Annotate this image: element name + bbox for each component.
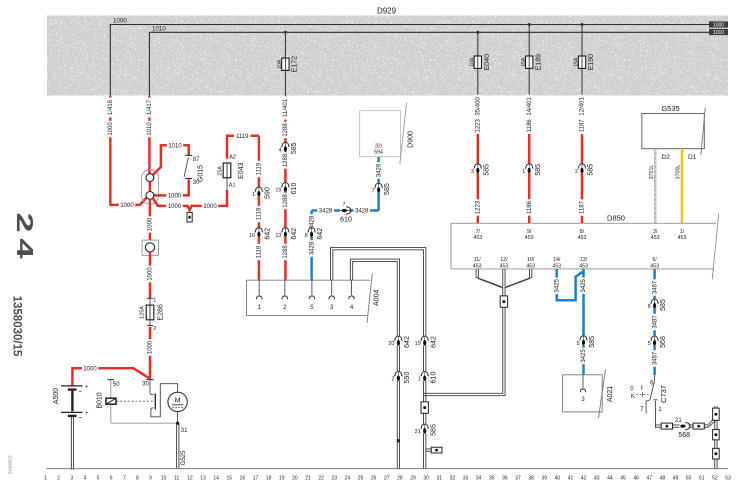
svg-text:E040: E040	[484, 54, 491, 70]
svg-text:453: 453	[473, 263, 482, 269]
fuse E189 15A	[528, 23, 531, 26]
svg-text:453: 453	[578, 235, 587, 241]
pin 4 A004	[351, 280, 353, 295]
svg-text:B010: B010	[97, 392, 104, 408]
wire 3487 from D850 pin 6	[653, 269, 656, 375]
svg-text:3487: 3487	[652, 280, 658, 294]
svg-text:15A: 15A	[574, 57, 580, 67]
connector 21/585	[421, 424, 428, 433]
svg-text:3487: 3487	[652, 351, 658, 365]
svg-text:23: 23	[331, 476, 337, 482]
svg-text:25: 25	[358, 476, 364, 482]
solenoid coil	[106, 398, 116, 404]
svg-text:22: 22	[318, 476, 324, 482]
pin 3 A004	[331, 280, 333, 295]
svg-text:585: 585	[535, 164, 542, 176]
battery A500	[61, 385, 82, 387]
svg-text:52: 52	[712, 476, 718, 482]
solenoid contact	[149, 380, 151, 393]
connector 5/568	[651, 336, 658, 345]
svg-text:7/: 7/	[476, 229, 481, 235]
svg-text:28: 28	[397, 476, 403, 482]
svg-text:7: 7	[123, 476, 126, 482]
svg-text:3700L: 3700L	[675, 165, 681, 180]
svg-text:G015: G015	[198, 165, 205, 182]
svg-text:20: 20	[388, 341, 394, 347]
wire 1000 switch to post	[154, 179, 189, 195]
svg-text:41: 41	[568, 476, 574, 482]
pin 3 A021	[582, 375, 584, 388]
svg-text:1119: 1119	[257, 162, 263, 175]
svg-text:1000: 1000	[148, 217, 154, 231]
svg-text:40: 40	[555, 476, 561, 482]
svg-text:125A: 125A	[140, 306, 146, 319]
svg-text:610: 610	[430, 372, 437, 384]
pin 1 C737	[654, 399, 658, 401]
svg-text:D929: D929	[377, 7, 397, 16]
svg-text:642: 642	[404, 336, 411, 348]
splice block 610 pair	[421, 402, 428, 413]
wire 1187 column	[581, 96, 584, 223]
svg-text:A021: A021	[607, 386, 614, 402]
svg-text:31: 31	[181, 428, 188, 434]
svg-text:585: 585	[483, 164, 490, 176]
ground block 2	[693, 423, 704, 429]
svg-text:1119: 1119	[257, 207, 263, 220]
connector 3/585	[474, 164, 481, 173]
svg-text:87: 87	[193, 157, 200, 163]
bus wire 1000	[110, 25, 709, 97]
svg-text:1000: 1000	[108, 122, 114, 136]
svg-text:3425: 3425	[581, 278, 587, 292]
svg-text:10/: 10/	[527, 257, 535, 263]
svg-text:43: 43	[594, 476, 600, 482]
svg-text:1000: 1000	[148, 340, 154, 354]
svg-text:A004: A004	[374, 290, 381, 306]
svg-text:8/: 8/	[580, 229, 585, 235]
svg-text:D850: D850	[607, 214, 625, 223]
svg-text:14/: 14/	[553, 257, 561, 263]
wire 1010 to switch G015	[153, 145, 189, 175]
bus wire 1010	[149, 32, 709, 96]
wire 1119	[227, 136, 259, 159]
svg-text:1000: 1000	[168, 194, 182, 200]
ground pair from D850 pins 11 12 10	[476, 269, 502, 287]
svg-text:1358030/15: 1358030/15	[10, 296, 22, 357]
connector 4/585	[282, 142, 289, 151]
svg-text:33: 33	[463, 476, 469, 482]
svg-text:2: 2	[57, 476, 60, 482]
wire 1010 feed	[148, 96, 151, 174]
svg-text:453: 453	[579, 263, 588, 269]
svg-text:642: 642	[291, 228, 298, 240]
wire pair from A004 pin 3	[331, 248, 426, 469]
svg-text:585: 585	[660, 299, 667, 311]
svg-text:4: 4	[278, 147, 281, 153]
svg-text:2: 2	[153, 326, 156, 332]
svg-text:1000: 1000	[148, 267, 154, 281]
svg-text:3425: 3425	[554, 278, 560, 292]
svg-text:1000: 1000	[83, 366, 97, 372]
svg-text:12/401: 12/401	[580, 97, 586, 116]
motor M	[168, 392, 187, 411]
splice block	[187, 212, 192, 222]
pin 1 A004	[258, 280, 260, 295]
svg-text:3487: 3487	[652, 315, 658, 329]
svg-text:594: 594	[374, 150, 383, 156]
svg-text:37: 37	[515, 476, 521, 482]
svg-text:1000: 1000	[713, 22, 724, 28]
svg-text:EL000021: EL000021	[8, 454, 13, 474]
wire 3425 from D850 pin 13	[582, 269, 585, 375]
wire 3428 horizontal	[312, 209, 379, 212]
svg-text:610: 610	[291, 183, 298, 195]
svg-text:1119: 1119	[236, 134, 249, 140]
starter B010	[147, 379, 154, 381]
svg-text:4: 4	[83, 476, 86, 482]
svg-text:39: 39	[541, 476, 547, 482]
svg-text:1/417: 1/417	[147, 99, 153, 115]
svg-text:585: 585	[430, 424, 437, 436]
svg-text:3: 3	[471, 169, 474, 175]
svg-text:1000: 1000	[120, 203, 134, 209]
svg-text:26: 26	[371, 476, 377, 482]
svg-text:1010: 1010	[147, 122, 153, 136]
svg-text:C737: C737	[659, 385, 668, 403]
svg-text:15A: 15A	[521, 57, 527, 67]
splice block on pair	[500, 296, 507, 307]
svg-text:45: 45	[620, 476, 626, 482]
svg-text:5: 5	[648, 341, 651, 347]
wire pair from A004 pin 4	[350, 259, 399, 469]
svg-text:18: 18	[266, 476, 272, 482]
svg-text:590: 590	[265, 187, 272, 199]
svg-text:3425: 3425	[581, 349, 587, 363]
svg-text:3428: 3428	[319, 209, 333, 215]
svg-text:453: 453	[499, 263, 508, 269]
ground block	[661, 423, 672, 429]
svg-text:1010: 1010	[713, 30, 724, 36]
svg-text:34: 34	[476, 476, 482, 482]
svg-text:38: 38	[528, 476, 534, 482]
svg-text:1: 1	[522, 169, 525, 175]
svg-text:1288: 1288	[283, 123, 289, 137]
svg-text:25A: 25A	[218, 166, 224, 176]
svg-text:1223: 1223	[475, 200, 481, 214]
node circle2	[149, 182, 152, 192]
svg-text:1: 1	[153, 297, 156, 303]
svg-text:42: 42	[581, 476, 587, 482]
svg-text:11/: 11/	[474, 257, 481, 263]
wire 1000 battery to starter	[72, 368, 149, 386]
svg-text:30: 30	[142, 382, 149, 388]
svg-text:14: 14	[213, 476, 219, 482]
svg-text:16: 16	[240, 476, 246, 482]
svg-text:15: 15	[226, 476, 232, 482]
svg-text:13: 13	[200, 476, 206, 482]
svg-text:10A: 10A	[469, 57, 475, 67]
svg-text:46: 46	[633, 476, 639, 482]
svg-text:585: 585	[589, 336, 596, 348]
svg-text:21: 21	[675, 418, 682, 424]
wire 1000 feed	[110, 96, 146, 205]
svg-text:D900: D900	[408, 131, 415, 148]
svg-text:8: 8	[136, 476, 139, 482]
svg-text:1288: 1288	[283, 194, 289, 208]
svg-text:1288: 1288	[283, 245, 289, 259]
svg-text:585: 585	[384, 183, 391, 195]
svg-text:47: 47	[646, 476, 652, 482]
svg-text:453: 453	[651, 235, 660, 241]
svg-text:1/416: 1/416	[108, 99, 114, 115]
ground chain from C737 pin 1	[656, 424, 662, 426]
connector 21/568	[680, 425, 685, 428]
svg-text:D2: D2	[662, 154, 671, 161]
ground stub block	[426, 448, 431, 450]
switch G015	[185, 154, 192, 156]
node circle1	[146, 174, 154, 182]
svg-text:19: 19	[275, 188, 281, 194]
svg-text:A2: A2	[229, 155, 236, 161]
svg-text:1186: 1186	[527, 200, 533, 214]
svg-text:19: 19	[279, 476, 285, 482]
svg-text:1119: 1119	[257, 245, 263, 258]
svg-text:568: 568	[678, 432, 690, 439]
svg-text:E190: E190	[588, 54, 595, 70]
svg-text:585: 585	[291, 142, 298, 154]
net tag 1000	[709, 21, 728, 27]
svg-text:1186: 1186	[527, 119, 533, 133]
svg-text:6: 6	[110, 476, 113, 482]
junction post terminal block	[142, 170, 159, 205]
connector 7/585	[375, 183, 382, 192]
svg-text:585: 585	[588, 164, 595, 176]
svg-text:1187: 1187	[580, 119, 586, 133]
fuse E172 10A	[284, 31, 287, 34]
connector 8/642	[308, 228, 315, 237]
svg-text:17: 17	[253, 476, 259, 482]
svg-text:1: 1	[418, 377, 421, 383]
connector 2/590	[395, 371, 402, 380]
svg-text:K: K	[631, 394, 635, 400]
svg-text:610: 610	[340, 217, 352, 224]
connector 16/642	[255, 228, 262, 237]
module A004	[247, 280, 371, 315]
wire 1288 column	[284, 96, 287, 280]
svg-text:6/: 6/	[652, 257, 657, 263]
svg-text:29: 29	[410, 476, 416, 482]
svg-text:2: 2	[391, 377, 394, 383]
module A021	[563, 375, 603, 412]
connector 19/610	[282, 182, 289, 191]
svg-text:1000: 1000	[203, 204, 217, 210]
svg-text:A1: A1	[229, 182, 236, 188]
fuse E190 15A	[581, 23, 584, 26]
svg-text:9/: 9/	[527, 229, 532, 235]
connector 8/585	[651, 299, 658, 308]
svg-text:35/400: 35/400	[475, 97, 481, 116]
svg-text:1010: 1010	[168, 143, 182, 149]
svg-text:7: 7	[372, 188, 375, 194]
svg-text:+: +	[85, 384, 89, 390]
svg-text:E172: E172	[292, 56, 299, 72]
svg-text:51: 51	[699, 476, 705, 482]
junction square post	[142, 240, 158, 255]
svg-text:27: 27	[384, 476, 390, 482]
svg-text:16: 16	[249, 233, 255, 239]
fuse E286 125A	[147, 297, 153, 299]
svg-text:14/401: 14/401	[527, 97, 533, 116]
harness band D929	[47, 16, 728, 96]
connector 20/642	[395, 336, 402, 345]
ground G525 pair	[176, 423, 178, 469]
svg-text:568: 568	[660, 336, 667, 348]
svg-text:453: 453	[526, 263, 535, 269]
connector 13/642	[282, 228, 289, 237]
battery ground pair	[70, 417, 72, 470]
svg-text:21: 21	[415, 429, 421, 435]
wire 3701L	[654, 149, 657, 224]
svg-text:642: 642	[317, 228, 324, 240]
svg-text:642: 642	[430, 336, 437, 348]
svg-text:642: 642	[265, 228, 272, 240]
svg-text:1010: 1010	[152, 25, 166, 32]
connector 7/610	[340, 207, 349, 214]
svg-text:30: 30	[423, 476, 429, 482]
svg-text:3428: 3428	[355, 209, 369, 215]
ground post column	[714, 406, 716, 469]
svg-text:3428: 3428	[309, 215, 315, 229]
svg-text:10A: 10A	[277, 59, 283, 69]
svg-text:24: 24	[11, 212, 36, 264]
svg-text:3: 3	[70, 476, 73, 482]
svg-text:E189: E189	[535, 54, 542, 70]
svg-text:8: 8	[305, 233, 308, 239]
connector 19/642	[421, 336, 428, 345]
pin 2 A004	[284, 280, 286, 295]
connector 5/585	[580, 336, 587, 345]
svg-text:M: M	[175, 397, 181, 404]
svg-text:5: 5	[97, 476, 100, 482]
svg-text:453: 453	[678, 235, 687, 241]
svg-text:20: 20	[292, 476, 298, 482]
svg-text:G525: G525	[181, 450, 187, 465]
svg-text:590: 590	[404, 372, 411, 384]
ruler line	[47, 468, 729, 470]
wire 1000 to E286	[149, 252, 152, 298]
pin 7 C737	[646, 400, 650, 413]
svg-text:453: 453	[552, 263, 561, 269]
svg-text:3428: 3428	[309, 241, 315, 255]
svg-text:53: 53	[725, 476, 731, 482]
svg-text:36: 36	[502, 476, 508, 482]
svg-text:3428: 3428	[376, 163, 382, 177]
fuse E043 25A	[226, 178, 228, 191]
svg-text:5: 5	[577, 341, 580, 347]
connector 1/585	[526, 164, 533, 173]
svg-text:31: 31	[436, 476, 442, 482]
svg-text:1288: 1288	[283, 153, 289, 167]
svg-text:19: 19	[415, 341, 421, 347]
svg-text:453: 453	[650, 263, 659, 269]
pin 5 A004	[311, 280, 313, 295]
svg-text:50: 50	[686, 476, 692, 482]
svg-text:44: 44	[607, 476, 613, 482]
svg-text:7: 7	[342, 202, 345, 208]
svg-text:A500: A500	[53, 388, 60, 404]
svg-text:E043: E043	[238, 163, 245, 179]
connector 2/585	[578, 164, 585, 173]
svg-text:3701L: 3701L	[649, 165, 655, 180]
svg-text:1187: 1187	[580, 200, 586, 214]
svg-text:1000: 1000	[168, 204, 182, 210]
svg-text:8: 8	[648, 304, 651, 310]
wire 1000 to fuse E043	[153, 190, 227, 210]
svg-text:453: 453	[525, 235, 534, 241]
module G535	[642, 114, 705, 149]
splice dot	[397, 439, 399, 443]
svg-text:48: 48	[660, 476, 666, 482]
svg-text:1: 1	[252, 192, 255, 198]
svg-text:10: 10	[161, 476, 167, 482]
svg-text:+: +	[85, 411, 89, 417]
svg-text:12/: 12/	[500, 257, 508, 263]
wire 1186 column	[528, 96, 531, 223]
fuse E040 10A	[476, 31, 479, 34]
svg-text:50: 50	[113, 382, 120, 388]
node 31	[176, 422, 179, 425]
module D850	[451, 223, 716, 269]
wire 3700L	[681, 149, 684, 224]
svg-text:13: 13	[275, 233, 281, 239]
svg-text:1223: 1223	[475, 118, 481, 132]
svg-text:24: 24	[345, 476, 351, 482]
svg-text:1000: 1000	[113, 18, 127, 25]
connector 1/590	[255, 187, 262, 196]
svg-text:3/: 3/	[653, 229, 658, 235]
svg-text:G535: G535	[661, 104, 679, 113]
net tag 1010	[709, 29, 728, 35]
svg-text:32: 32	[450, 476, 456, 482]
connector 1/610	[421, 371, 428, 380]
svg-text:9: 9	[149, 476, 152, 482]
svg-text:13/: 13/	[580, 257, 588, 263]
wire 1000 to pin 30	[149, 327, 152, 379]
wire 3428 to A004 pin5	[310, 211, 313, 281]
module D900	[360, 111, 401, 157]
svg-text:11/401: 11/401	[283, 98, 289, 117]
svg-text:1: 1	[44, 476, 47, 482]
svg-text:453: 453	[473, 235, 482, 241]
svg-text:1/: 1/	[680, 229, 685, 235]
switch C737	[654, 375, 656, 381]
svg-text:11: 11	[174, 476, 179, 482]
svg-text:E286: E286	[158, 304, 165, 320]
wire 3425 from D850 pin 14	[557, 269, 583, 300]
wire 1119 column	[258, 136, 261, 281]
svg-text:D1: D1	[688, 154, 697, 161]
svg-text:21: 21	[305, 476, 311, 482]
svg-text:12: 12	[187, 476, 193, 482]
svg-text:49: 49	[673, 476, 679, 482]
svg-text:35: 35	[489, 476, 495, 482]
svg-text:32/: 32/	[375, 144, 383, 150]
wire 3428 from D900	[377, 157, 380, 211]
wire 1223 column	[477, 96, 480, 223]
fuse E286 feed	[149, 199, 152, 240]
svg-text:2: 2	[575, 169, 578, 175]
